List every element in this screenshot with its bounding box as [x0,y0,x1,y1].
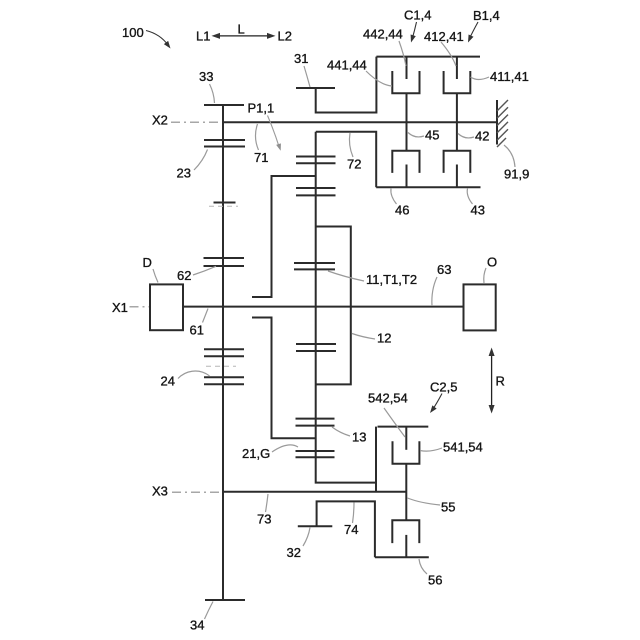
svg-text:X2: X2 [152,113,168,128]
svg-text:13: 13 [352,430,366,445]
svg-text:100: 100 [122,25,144,40]
svg-text:D: D [143,255,152,270]
svg-text:C1,4: C1,4 [404,8,431,23]
svg-text:441,44: 441,44 [327,57,367,72]
svg-text:61: 61 [190,323,204,338]
svg-text:L1: L1 [196,29,210,44]
svg-text:411,41: 411,41 [490,69,529,84]
svg-text:P1,1: P1,1 [248,101,275,116]
svg-text:11,T1,T2: 11,T1,T2 [366,272,417,287]
svg-text:R: R [496,374,505,389]
svg-text:24: 24 [161,374,175,389]
svg-text:74: 74 [344,522,358,537]
svg-text:72: 72 [347,157,361,172]
svg-text:46: 46 [395,203,409,218]
svg-text:X3: X3 [152,484,168,499]
svg-text:L: L [238,22,245,37]
svg-text:442,44: 442,44 [363,27,403,42]
svg-text:73: 73 [257,511,271,526]
svg-text:62: 62 [177,268,191,283]
svg-text:O: O [487,254,497,269]
svg-text:43: 43 [471,203,485,218]
svg-text:33: 33 [199,69,213,84]
svg-text:55: 55 [441,500,455,515]
svg-text:71: 71 [254,150,268,165]
svg-text:34: 34 [190,618,204,633]
svg-text:42: 42 [475,129,489,144]
svg-text:542,54: 542,54 [368,391,408,406]
svg-text:C2,5: C2,5 [430,379,457,394]
svg-text:541,54: 541,54 [443,440,483,455]
svg-text:B1,4: B1,4 [473,8,500,23]
svg-text:L2: L2 [278,29,292,44]
svg-text:91,9: 91,9 [504,167,529,182]
svg-text:31: 31 [294,51,308,66]
svg-text:56: 56 [428,573,442,588]
svg-text:23: 23 [177,165,191,180]
svg-text:32: 32 [287,545,301,560]
svg-text:21,G: 21,G [242,446,270,461]
svg-text:X1: X1 [112,300,128,315]
svg-text:63: 63 [437,262,451,277]
svg-text:45: 45 [425,128,439,143]
svg-text:412,41: 412,41 [424,29,464,44]
svg-text:12: 12 [377,330,391,345]
